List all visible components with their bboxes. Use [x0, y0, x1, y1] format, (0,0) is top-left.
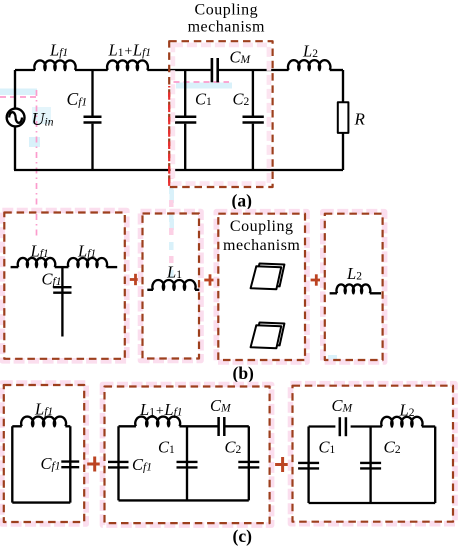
coupling plate symbol upper (b): back sheet [254, 264, 285, 287]
wire: (c)1 top rail left [12, 425, 21, 427]
svg-text:Coupling: Coupling [230, 218, 294, 235]
capacitor Cf1 (c)1 plates [61, 462, 79, 468]
wire: (c)1 top rail right [65, 425, 70, 427]
plus sign between (c)1 and (c)2 [87, 457, 102, 472]
box (c)3: brown dashed border [293, 386, 454, 522]
wire: (a) top rail between Lf1 and L1+Lf1 [75, 69, 108, 71]
wire: (c)2 C1 branch [186, 426, 188, 500]
capacitor CM (c)3 plates [340, 417, 346, 436]
box (c)2: brown dashed border [105, 387, 270, 524]
capacitor CM (a) plates [212, 58, 218, 82]
capacitor C1 (c)2 plates [177, 462, 198, 468]
wire: (c)3 top rail between CM and middle node [351, 425, 382, 427]
wire: (c)2 top rail left [119, 425, 136, 427]
wire: (b)1 left lead [11, 266, 19, 268]
svg-text:C1: C1 [319, 438, 336, 457]
highlight artifact: cyan band inside coupling box (a) [176, 83, 232, 89]
box (b)2 L1 cell: pink halo [141, 212, 202, 361]
wire: (a) right branch lower [342, 133, 344, 170]
wire: (b)3 right lead [370, 292, 381, 294]
wire: (c)2 top rail right of CM [225, 425, 249, 427]
inductor Lf1 first (b)1 [18, 258, 56, 267]
wire: (c)3 top rail left [309, 425, 336, 427]
box (b)1 filter cell: brown dashed border [4, 213, 125, 359]
plus sign between (c)2 and (c)3 [275, 457, 290, 472]
highlight artifact: cyan band left of source [0, 89, 37, 96]
svg-text:mechanism: mechanism [223, 237, 300, 254]
box (c)3: pink halo [291, 384, 456, 524]
coupling mechanism box (a): brown dashed border [169, 41, 272, 187]
inductor L1+Lf1 (a) [107, 60, 148, 70]
plus sign between (b)1 and (b)2 [130, 274, 141, 285]
wire: (a) top rail right [330, 69, 343, 71]
highlight artifact: cyan band below coupling box (a) [170, 190, 175, 203]
box (b)3 L2 cell: brown dashed border [325, 214, 383, 360]
wire: (a) top rail segment left [15, 69, 35, 71]
label: Coupling mechanism title (b) [223, 218, 300, 254]
capacitor C2 (a) plates [243, 117, 264, 123]
wire: (c)2 top rail middle [180, 425, 219, 427]
svg-text:Coupling: Coupling [195, 2, 259, 19]
svg-text:(c): (c) [233, 526, 253, 546]
wire: (a) C2 branch lower [252, 124, 254, 170]
wire: (c)3 C2 branch [369, 427, 371, 504]
svg-text:mechanism: mechanism [188, 18, 265, 35]
inductor L2 (a) [288, 60, 330, 70]
svg-text:C2: C2 [384, 438, 401, 457]
svg-text:R: R [354, 110, 366, 129]
wire: (c)3 bottom rail [309, 502, 436, 504]
wire: (b)1 right lead [107, 266, 118, 268]
svg-text:L1+Lf1: L1+Lf1 [139, 400, 183, 419]
wire: (b)1 middle segment [55, 266, 69, 268]
inductor Lf1 (c)1 [21, 417, 66, 427]
wire: (b)3 left lead [330, 292, 337, 294]
inductor Lf1 (a) [34, 60, 75, 70]
svg-text:C2: C2 [225, 438, 242, 457]
highlight artifact: magenta dashed vertical band x=172 below box (a) [169, 172, 174, 280]
capacitor C1 (a) plates [175, 117, 196, 123]
wire: (b)1 Cf1 stem [61, 267, 63, 336]
wire: (a) Cf1 branch upper [91, 70, 93, 116]
wire: (b)2 left lead [147, 289, 153, 291]
capacitor Cf1 (a) plates [84, 117, 102, 123]
coupling mechanism box (a): red dashes on left edge [168, 86, 170, 187]
svg-text:Cf1: Cf1 [42, 270, 62, 289]
svg-text:L2: L2 [399, 401, 415, 420]
wire: (a) bottom rail [14, 169, 343, 171]
svg-text:(a): (a) [232, 190, 253, 210]
wire: (a) right branch upper [342, 70, 344, 102]
svg-text:CM: CM [230, 48, 252, 67]
svg-text:CM: CM [332, 396, 354, 415]
wire: (a) left branch upper [14, 70, 16, 108]
inductor L2 (b)3 [337, 284, 371, 293]
capacitor Cf1 (c)2 plates [108, 462, 129, 468]
box (b)2 L1 cell: brown dashed border [143, 214, 200, 359]
svg-text:Lf1: Lf1 [49, 41, 68, 60]
wire: (c)1 bottom rail [12, 501, 70, 503]
highlight artifact: cyan patch near Uin [29, 137, 40, 147]
svg-text:CM: CM [210, 396, 232, 415]
inductor Lf1 second (b)1 [68, 258, 107, 267]
wire: (c)2 right side [248, 426, 250, 500]
svg-text:L2: L2 [302, 42, 318, 61]
wire: (c)3 left side [307, 427, 309, 504]
svg-text:Lf1: Lf1 [77, 242, 96, 261]
wire: (a) top rail to CM [147, 69, 210, 71]
wire: (a) top rail CM to L2 [219, 69, 289, 71]
wire: (c)3 right side [434, 427, 436, 504]
wire: (a) C1 branch lower [184, 124, 186, 170]
wire: (a) C1 branch upper [184, 70, 186, 116]
plus sign between (b)2 and coupling box [204, 274, 215, 285]
svg-text:C1: C1 [195, 90, 212, 109]
highlight artifact: magenta dash-dot vertical line x=39 [36, 90, 38, 236]
source Uin [7, 109, 25, 127]
plus sign between coupling box and (b)3 [311, 274, 322, 285]
coupling mechanism box (a): pink inner halo [173, 45, 269, 184]
box (b)3 L2 cell: pink halo [323, 212, 385, 362]
wire: (a) left branch lower [14, 127, 16, 170]
box (b)1 filter cell: pink halo [2, 211, 127, 361]
label: Coupling mechanism title (a) [188, 2, 265, 36]
wire: (a) Cf1 branch lower [91, 124, 93, 170]
resistor R [338, 102, 349, 133]
wire: (c)3 top rail right [422, 425, 435, 427]
inductor L2 (c)3 [381, 417, 422, 427]
svg-text:C2: C2 [233, 90, 250, 109]
capacitor C2 (c)2 plates [238, 462, 259, 468]
box (c)2: pink halo [103, 385, 272, 526]
inductor L1 (b)2 [152, 280, 195, 290]
svg-text:L1+Lf1: L1+Lf1 [108, 41, 152, 60]
capacitor C1 (c)3 plates [298, 463, 319, 469]
capacitor CM (c)2 plates [219, 417, 225, 436]
coupling mechanism box (b): pink halo [216, 212, 307, 362]
svg-text:Cf1: Cf1 [132, 455, 152, 474]
svg-text:Cf1: Cf1 [41, 454, 61, 473]
coupling plate symbol upper (b): front sheet [251, 266, 282, 289]
coupling mechanism box (b): brown dashed border [218, 214, 305, 360]
wire: (c)2 left side [117, 426, 119, 500]
svg-text:Lf1: Lf1 [34, 400, 53, 419]
coupling plate symbol lower (b): back sheet [254, 323, 285, 346]
box (c)1: brown dashed border [4, 385, 84, 522]
svg-text:C1: C1 [158, 438, 175, 457]
highlight artifact: magenta dashed horizontal line in coupling box (a) [174, 81, 230, 83]
coupling plate symbol lower (b): front sheet [251, 325, 282, 348]
wire: (c)1 right side [69, 426, 71, 502]
svg-text:L1: L1 [166, 263, 182, 282]
inductor L1+Lf1 (c)2 [135, 417, 180, 427]
box (c)1: pink halo [2, 383, 86, 524]
wire: (c)1 left side [11, 426, 13, 502]
capacitor C2 (c)3 plates [360, 463, 381, 469]
svg-text:Cf1: Cf1 [67, 89, 88, 109]
wire: (c)2 bottom rail [119, 499, 249, 501]
wire: (b)2 right lead [195, 289, 199, 291]
svg-text:L2: L2 [346, 264, 362, 283]
svg-text:(b): (b) [233, 363, 255, 383]
svg-text:Lf1: Lf1 [30, 242, 49, 261]
wire: (a) C2 branch upper [252, 70, 254, 116]
highlight artifact: magenta dashed horizontal line near source [0, 96, 37, 98]
capacitor Cf1 (b)1 plates [53, 287, 71, 293]
